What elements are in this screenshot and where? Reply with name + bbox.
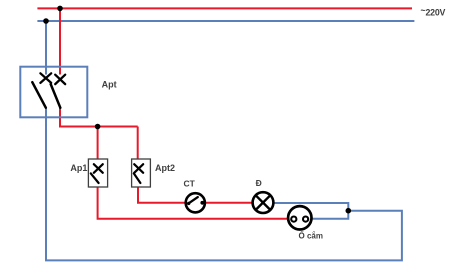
- svg-text:~220V: ~220V: [421, 6, 446, 18]
- svg-text:Ap1: Ap1: [70, 163, 87, 173]
- svg-text:Đ: Đ: [256, 178, 262, 188]
- svg-text:Ổ cắm: Ổ cắm: [299, 232, 323, 241]
- svg-text:Apt2: Apt2: [155, 163, 175, 173]
- svg-text:CT: CT: [184, 179, 196, 189]
- svg-text:Apt: Apt: [102, 80, 117, 90]
